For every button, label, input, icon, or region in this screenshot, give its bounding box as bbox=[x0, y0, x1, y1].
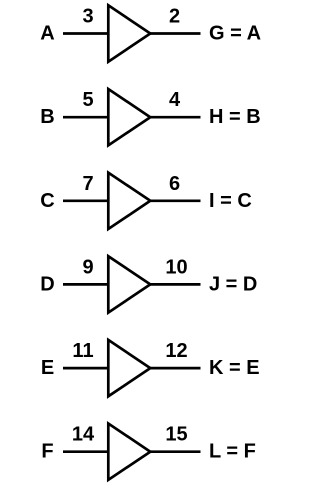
svg-text:9: 9 bbox=[82, 256, 93, 278]
wire U4 pin 10 to node J bbox=[149, 283, 201, 286]
svg-text:A: A bbox=[40, 23, 54, 45]
svg-text:I = C: I = C bbox=[209, 190, 252, 212]
svg-text:H = B: H = B bbox=[209, 106, 261, 128]
wire input A to U1 pin 3 bbox=[63, 32, 108, 35]
svg-text:6: 6 bbox=[169, 173, 180, 195]
svg-text:B: B bbox=[40, 106, 54, 128]
buffer U3 (triangle) bbox=[108, 173, 150, 229]
wire input D to U4 pin 9 bbox=[63, 283, 108, 286]
svg-text:7: 7 bbox=[82, 173, 93, 195]
svg-text:C: C bbox=[40, 190, 54, 212]
buffer U2 (triangle) bbox=[108, 89, 150, 145]
buffer U1 (triangle) bbox=[108, 5, 150, 61]
buffer U6 (triangle) bbox=[108, 424, 150, 480]
svg-text:15: 15 bbox=[165, 424, 187, 446]
wire input F to U6 pin 14 bbox=[63, 450, 108, 453]
wire U2 pin 4 to node H bbox=[149, 116, 201, 119]
svg-text:14: 14 bbox=[72, 424, 95, 446]
svg-text:2: 2 bbox=[169, 6, 180, 28]
wire input E to U5 pin 11 bbox=[63, 367, 108, 370]
svg-text:G = A: G = A bbox=[209, 23, 261, 45]
svg-text:D: D bbox=[40, 273, 54, 295]
svg-text:K = E: K = E bbox=[209, 357, 260, 379]
svg-text:11: 11 bbox=[72, 340, 93, 362]
wire U3 pin 6 to node I bbox=[149, 199, 201, 202]
svg-text:E: E bbox=[41, 357, 54, 379]
svg-text:F: F bbox=[41, 441, 53, 463]
wire U6 pin 15 to node L bbox=[149, 450, 201, 453]
buffer U5 (triangle) bbox=[108, 340, 150, 396]
svg-text:J = D: J = D bbox=[209, 273, 257, 295]
svg-text:5: 5 bbox=[82, 89, 93, 111]
wire U1 pin 2 to node G bbox=[149, 32, 201, 35]
svg-text:10: 10 bbox=[165, 256, 187, 278]
svg-text:3: 3 bbox=[82, 6, 93, 28]
svg-text:4: 4 bbox=[169, 89, 181, 111]
svg-text:12: 12 bbox=[165, 340, 187, 362]
buffer U4 (triangle) bbox=[108, 256, 150, 312]
wire U5 pin 12 to node K bbox=[149, 367, 201, 370]
wire input C to U3 pin 7 bbox=[63, 199, 108, 202]
svg-text:L = F: L = F bbox=[209, 441, 256, 463]
wire input B to U2 pin 5 bbox=[63, 116, 108, 119]
